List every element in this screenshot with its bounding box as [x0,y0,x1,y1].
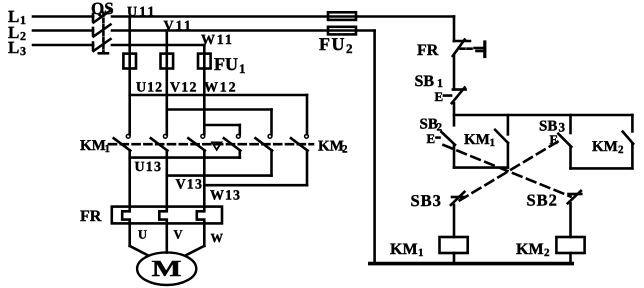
wire left branch to KM1 coil [453,205,456,237]
pushbutton SB3 NC interlock contact label [411,191,442,210]
pushbutton SB3 NO start button [558,115,571,168]
node W13 junction wire [204,184,307,187]
thermal relay FR heater element 1 [122,207,130,224]
svg-text:2: 2 [618,144,624,156]
pushbutton SB3 NC interlock contact [451,192,465,205]
node V12 label [170,81,198,96]
svg-text:KM: KM [390,241,418,258]
node V11 label [164,19,193,34]
fuse FU1 pole 3 [198,54,211,69]
wire L3 incoming [33,44,93,47]
svg-text:E: E [435,89,444,104]
node L3 label [8,38,26,58]
contactor KM2 coil label [516,241,550,259]
node V13 label [176,178,204,193]
wire KM2 pole 3 output [306,150,309,185]
node U11 label [127,5,156,20]
wire control bus horizontal [454,114,632,117]
svg-text:SB3: SB3 [411,191,442,210]
wire KM2 pole 1 output [239,150,242,157]
wire KM1 pole 1 output [128,150,131,206]
svg-text:KM: KM [592,139,618,155]
svg-text:2: 2 [346,41,353,56]
wire KM2 pole 2 output [270,150,273,175]
svg-text:3: 3 [559,120,566,135]
svg-text:U: U [138,228,147,242]
fuse FU1 pole 2 [161,54,174,69]
svg-text:2: 2 [544,247,550,259]
svg-text:M: M [152,256,182,281]
wire right rail SB1 to bus [453,103,456,125]
pushbutton SB3 cap E [550,132,559,147]
node U13 junction wire [130,156,240,159]
wire W12 branch to KM2 pole 1 [204,125,240,134]
pushbutton SB1 label [415,73,444,90]
wire U12 branch to KM2 pole 3 [130,95,307,134]
motor M letter [152,256,182,281]
contactor KM1 coil label [390,241,424,259]
svg-text:SB2: SB2 [527,191,558,210]
contactor KM2 label (main contacts) [318,139,348,156]
switch QS label [91,0,114,18]
contactor KM1 main contact pole 2 [151,134,168,150]
contactor KM1 auxiliary NO contact [495,115,508,168]
wire KM2 coil to bottom bar [569,253,572,264]
svg-text:FU: FU [214,54,238,74]
node L2 label [8,23,26,43]
fuse FU2 label [319,34,353,56]
thermal relay FR trip linkage [461,42,485,57]
svg-text:E: E [427,131,436,146]
node W13 label [210,189,241,204]
contactor KM2 auxiliary NO contact [623,115,634,168]
fuse FU2 pole 1 [328,12,356,20]
wire KM1 pole 2 output [166,150,169,206]
svg-text:FR: FR [417,42,439,59]
svg-text:1: 1 [490,137,496,149]
wire L1 incoming [33,15,93,18]
thermal relay FR heater element 2 [159,207,167,224]
wire L2 incoming [33,29,93,32]
node V terminal label [174,228,183,242]
wire KM2 branch join [571,167,633,170]
mechanical linkage dashed (main contacts) [109,143,313,146]
pushbutton SB1 cap E [435,89,444,104]
svg-text:L: L [8,38,19,57]
svg-text:3: 3 [20,44,26,58]
switch QS linkage dashed [99,13,108,54]
pushbutton SB2 cap link dashed [437,136,442,139]
thermal relay FR box [112,207,222,224]
wire KM1 coil to bottom bar [453,253,456,264]
contactor KM2 main contact pole 3 [291,134,308,150]
wire L3 after QS [112,44,204,47]
switch QS pole 1 [93,11,111,23]
wire right branch to KM2 coil [569,203,572,237]
node W12 label [204,81,237,96]
pushbutton SB2 NC interlock contact [568,191,582,203]
contactor KM2 coil [556,237,584,253]
wire L2 to control left rail [112,31,375,264]
switch QS pole 3 [93,39,111,51]
contactor KM2 main contact pole 2 [256,134,273,150]
svg-text:W11: W11 [201,33,234,48]
pushbutton SB2 label [420,117,443,134]
svg-text:KM: KM [80,138,106,154]
svg-text:1: 1 [437,76,443,90]
svg-text:W: W [211,231,224,245]
thermal relay FR auxiliary NC contact [453,40,470,56]
svg-text:KM: KM [464,132,490,148]
linkage triangle marker [212,142,221,149]
wire motor W lead [186,223,205,255]
svg-text:V13: V13 [176,178,204,193]
thermal relay FR label (control) [417,42,439,59]
wire U11 vertical [128,17,131,135]
svg-text:SB: SB [415,73,435,90]
contactor KM1 label (aux contact) [464,132,495,149]
thermal relay FR heater element 3 [197,207,205,224]
node V13 junction wire [167,174,272,177]
node U terminal label [138,228,147,242]
node W terminal label [211,231,224,245]
switch QS pole 2 [93,25,111,37]
svg-text:2: 2 [342,144,348,156]
interlock dashed SB3 to SB3' [456,142,558,203]
wire L1 to control right rail [112,17,454,42]
wire KM1 pole 3 output [203,150,206,206]
contactor KM2 label (aux contact) [592,139,624,156]
svg-text:1: 1 [239,61,246,76]
svg-text:FU: FU [319,34,346,54]
node U13 label [135,160,163,175]
fuse FU1 pole 1 [123,54,136,69]
fuse FU1 label [214,54,246,76]
contactor KM1 main contact pole 3 [188,134,205,150]
svg-text:KM: KM [318,139,344,155]
svg-text:U13: U13 [135,160,163,175]
svg-text:1: 1 [20,13,26,27]
svg-text:W12: W12 [204,81,237,96]
wire KM1 branch join [454,166,508,169]
contactor KM2 main contact pole 1 [224,134,241,150]
pushbutton SB1 cap link dashed [444,94,451,97]
node W11 label [201,33,234,48]
wire left branch SB2 to join [453,145,456,168]
svg-text:V12: V12 [170,81,198,96]
wire V11 vertical [166,31,169,135]
wire V12 branch to KM2 pole 2 [167,110,272,135]
thermal relay FR label (power) [80,208,102,225]
svg-text:V: V [174,228,183,242]
motor M circle [137,252,196,285]
wire motor U lead [130,223,148,255]
pushbutton SB2 cap E [427,131,436,146]
fuse FU2 pole 2 [328,27,356,35]
pushbutton SB2 NO start button [441,132,455,145]
wire control bottom bar [370,262,572,266]
wire motor V lead [166,223,169,252]
svg-text:U12: U12 [136,81,163,96]
svg-text:1: 1 [418,247,424,259]
pushbutton SB1 NC stop button [452,88,466,104]
wire right rail FR to SB1 [453,56,456,90]
wire W11 vertical [203,45,206,134]
contactor KM1 main contact pole 1 [114,134,131,150]
interlock dashed SB2 to SB2' [444,145,571,197]
svg-text:W13: W13 [210,189,241,204]
contactor KM1 coil [440,237,468,253]
pushbutton SB2 NC interlock contact label [527,191,558,210]
svg-text:FR: FR [80,208,102,225]
node U12 label [136,81,163,96]
node L1 label [8,7,26,27]
contactor KM1 label (main contacts) [80,138,110,155]
svg-text:2: 2 [20,29,26,43]
svg-text:KM: KM [516,241,544,258]
pushbutton SB3 label [539,119,566,135]
